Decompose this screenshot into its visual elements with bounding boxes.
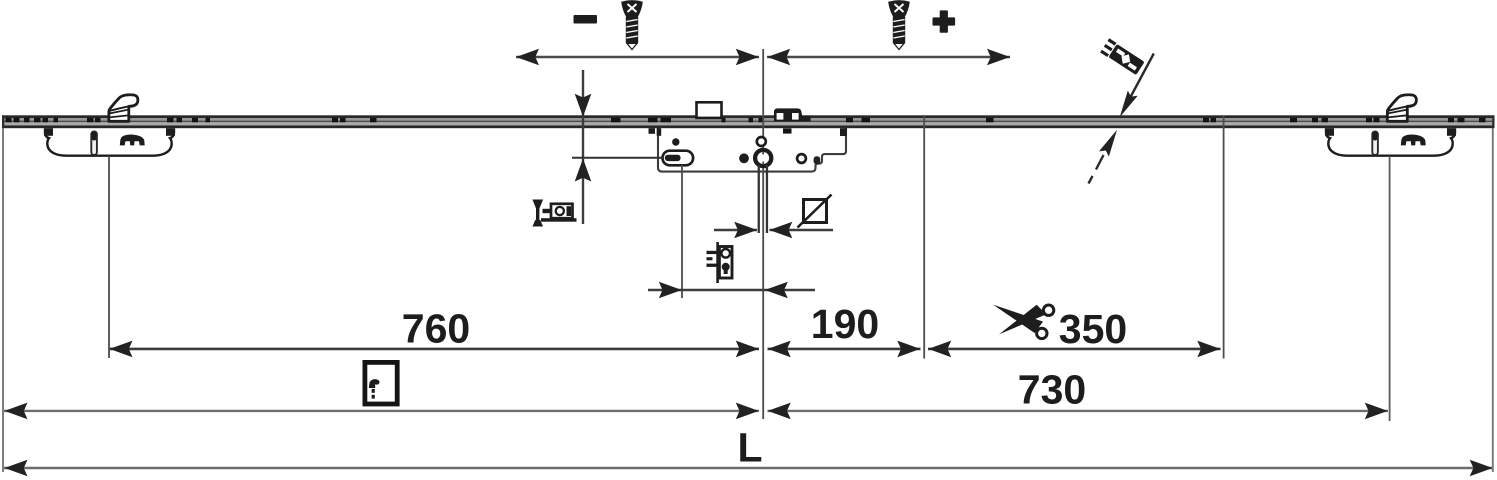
screw icon left bbox=[621, 0, 643, 50]
gearbox small hole right bbox=[797, 154, 806, 163]
mushroom cam hook right bbox=[1387, 95, 1416, 122]
plus sign bbox=[933, 10, 956, 32]
gearbox rivet dot center bbox=[739, 153, 749, 163]
gearbox spindle hub bbox=[755, 150, 771, 166]
left full-height extension line bbox=[2, 128, 4, 472]
keyhole axis reference line bbox=[572, 157, 664, 159]
crossed square icon (spindle cross-section) bbox=[798, 195, 832, 228]
svg-text:730: 730 bbox=[1018, 367, 1086, 413]
L dimension line bbox=[4, 460, 1493, 477]
rail: espagnolette face plate bar bbox=[2, 115, 1495, 128]
screw icon right bbox=[888, 0, 910, 50]
extension line x=1223.6 bbox=[1223, 116, 1225, 359]
keyhole extension line down bbox=[681, 165, 683, 298]
rail screw-hole marks bbox=[6, 118, 1486, 123]
faceplate icon (gearbox front view) bbox=[707, 242, 733, 283]
right full-height extension line bbox=[1492, 128, 1494, 472]
cylinder icon (lower left) bbox=[533, 200, 577, 227]
dimension line left end to centre bbox=[4, 403, 759, 420]
tilted cylinder icon (top right) bbox=[1100, 38, 1145, 75]
adjustment dimension minus side bbox=[516, 49, 759, 66]
leader arrow lower dashed bbox=[1089, 127, 1122, 183]
extension line x=1389.6 (right keeper axis) bbox=[1389, 156, 1391, 421]
keeper housing left bbox=[44, 128, 175, 156]
gearbox top tab bbox=[697, 102, 722, 118]
mushroom cam hook left bbox=[109, 95, 138, 122]
centre axis line bbox=[762, 49, 764, 419]
gearbox keyhole slot bbox=[663, 151, 694, 166]
dimension line 730 bbox=[768, 403, 1389, 420]
leader arrow from tilted icon to rail upper bbox=[1115, 54, 1154, 120]
extension line x=109 (keeper axis) bbox=[108, 156, 110, 358]
gearbox top bracket bbox=[774, 108, 811, 121]
gearbox small hole upper-center bbox=[757, 137, 766, 146]
svg-text:L: L bbox=[737, 425, 762, 471]
spindle width dimension bbox=[714, 222, 833, 239]
svg-text:760: 760 bbox=[402, 306, 470, 352]
svg-text:190: 190 bbox=[811, 301, 879, 347]
extension line x=924 bbox=[923, 116, 925, 359]
svg-text:350: 350 bbox=[1059, 306, 1127, 352]
gearbox rivet dot upper-left bbox=[672, 138, 679, 145]
square icon with hook glyph bbox=[365, 362, 397, 404]
dimension line 350 bbox=[928, 341, 1221, 358]
spindle stem double line bbox=[758, 165, 769, 233]
minus sign bbox=[574, 15, 598, 24]
dimension line 760 bbox=[109, 341, 759, 358]
backset dimension keyhole to spindle bbox=[648, 282, 815, 299]
scissors icon bbox=[993, 305, 1054, 339]
adjustment dimension plus side bbox=[767, 49, 1010, 66]
keeper housing right bbox=[1325, 128, 1456, 156]
gearbox case outline bbox=[649, 128, 847, 172]
dimension line 190 bbox=[768, 341, 921, 358]
vertical dimension rail to keyhole axis bbox=[575, 70, 592, 224]
